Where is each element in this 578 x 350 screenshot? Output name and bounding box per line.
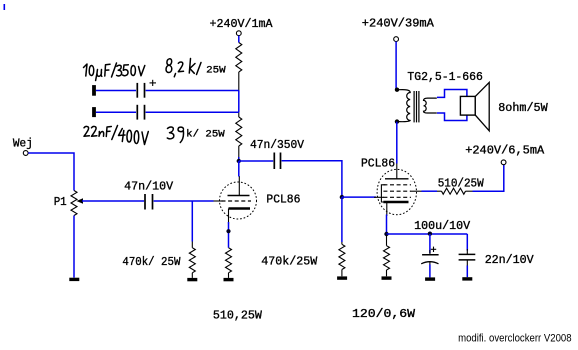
wire cap to V2 grid junction: [282, 161, 342, 197]
handwritten label 22nF/400V: [84, 126, 148, 145]
ground 470k 2: [337, 276, 347, 279]
cap 10uF polarity +: [150, 80, 157, 86]
capacitor 100u/10V electrolytic: [421, 234, 438, 265]
wire terminal to R 8.2k: [238, 36, 240, 43]
node Wej label: [13, 137, 33, 151]
wire junction to 470k: [191, 201, 193, 242]
V2 anode: [385, 178, 409, 180]
supply +240V/39mA label: [362, 17, 435, 31]
wire secondary bottom to speaker: [437, 113, 467, 121]
transformer core: [414, 91, 419, 122]
speaker cone: [475, 82, 489, 130]
terminal +240V/1mA: [236, 31, 241, 36]
junction V1 cathode: [226, 229, 230, 233]
svg-text:PCL86: PCL86: [266, 193, 300, 207]
wire node to V1 anode: [238, 161, 240, 177]
ground 22n: [462, 277, 472, 280]
resistor 8,2k/25W: [236, 43, 242, 91]
tube V2 label PCL86: [361, 157, 395, 171]
capacitor 47n/10V: [145, 194, 153, 210]
V2 anode lead: [396, 163, 398, 179]
handwritten label 10uF/350V: [84, 63, 145, 81]
V2 grid g1 (dashed): [383, 196, 411, 198]
capacitor 47n/350V label: [250, 138, 305, 152]
terminal +240V/39mA: [394, 37, 399, 42]
transformer secondary winding: [424, 98, 437, 113]
tube V1 label PCL86: [266, 193, 300, 207]
svg-text:22n/10V: 22n/10V: [485, 253, 535, 267]
wire cap 22nF to rail: [146, 111, 239, 113]
supply +240V/6,5mA label: [465, 144, 545, 158]
wire cap to grid: [154, 200, 214, 202]
wire R510 to +240V/6,5mA: [473, 165, 504, 192]
wire g2 to R510: [422, 190, 438, 192]
resistor 510,25W cathode: [226, 248, 232, 278]
wire input to P1 top: [28, 153, 74, 191]
wire junction to V2 grid: [342, 196, 376, 198]
resistor 470k/25W grid: [189, 242, 195, 278]
V2 cathode: [383, 202, 408, 216]
resistor 470k/25W label: [122, 255, 181, 269]
footer text: [458, 332, 571, 344]
svg-text:+240V/1mA: +240V/1mA: [210, 17, 274, 31]
terminal +240V/6,5mA: [501, 160, 506, 165]
wire 100u to ground: [429, 265, 431, 278]
svg-text:47n/10V: 47n/10V: [124, 179, 174, 193]
input terminal Wej: [23, 151, 28, 156]
svg-text:470k/ 25W: 470k/ 25W: [122, 255, 181, 269]
wire V2 cathode down: [386, 215, 388, 235]
wire bar to cap 10uF: [96, 90, 136, 92]
potentiometer P1: [71, 191, 77, 216]
stray mark: [3, 4, 5, 10]
capacitor 100u/10V label: [414, 219, 471, 233]
V2 g3 strap: [381, 185, 385, 202]
svg-text:k/ 25W: k/ 25W: [186, 129, 225, 141]
resistor 510/25W label: [438, 176, 485, 190]
tube V2 PCL86 pentode envelope: [377, 169, 416, 214]
svg-text:Wej: Wej: [13, 137, 33, 151]
svg-text:8ohm/5W: 8ohm/5W: [498, 101, 548, 115]
V2 g1 lead: [374, 196, 384, 198]
rail segment: [238, 91, 240, 113]
svg-text:510/25W: 510/25W: [438, 176, 485, 190]
wire R39k to node: [238, 157, 240, 161]
ground V1 cathode: [224, 278, 234, 281]
svg-text:PCL86: PCL86: [361, 157, 395, 171]
cap 10uF/350V terminal bar: [92, 85, 96, 96]
wire plate to transformer: [396, 122, 398, 164]
wire P1 to ground: [73, 216, 75, 278]
potentiometer P1 label: [54, 195, 67, 209]
transformer TG2,5-1-666 label: [407, 70, 483, 84]
wire cathode to caps: [387, 233, 468, 235]
label 25W (8,2k): [206, 65, 226, 76]
svg-text:modifi. overclockerr V2008: modifi. overclockerr V2008: [458, 332, 571, 344]
cap 100u polarity +: [431, 247, 436, 252]
svg-text:TG2,5-1-666: TG2,5-1-666: [407, 70, 483, 84]
transformer primary winding: [399, 90, 410, 122]
capacitor 10uF/350V: [137, 83, 144, 98]
svg-text:510,25W: 510,25W: [213, 308, 263, 322]
svg-text:100u/10V: 100u/10V: [414, 219, 471, 233]
svg-text:+240V/6,5mA: +240V/6,5mA: [465, 144, 545, 158]
wire bar to cap 22nF: [96, 111, 136, 113]
ground 120 ohm: [382, 276, 392, 279]
V2 grid g3 (dashed): [383, 184, 411, 186]
junction 100u: [428, 232, 432, 236]
resistor 510,25W label: [213, 308, 263, 322]
capacitor 22n/10V label: [485, 253, 535, 267]
wire 22n to ground: [466, 266, 468, 278]
junction anode node: [237, 159, 241, 163]
ground 100u: [425, 277, 435, 280]
handwritten label 39: [167, 127, 183, 143]
wire node to cap 47n/350V: [239, 160, 273, 162]
capacitor 47n/10V label: [124, 179, 174, 193]
wire V1 cathode down: [228, 222, 230, 248]
svg-text:+240V/39mA: +240V/39mA: [362, 17, 435, 31]
V2 g2 lead: [411, 190, 422, 192]
junction V2 grid: [340, 195, 344, 199]
resistor 470k/25W grid V2: [339, 242, 345, 276]
junction primary top: [395, 88, 399, 92]
wire supply to transformer: [395, 42, 397, 90]
capacitor 22n/10V: [459, 234, 476, 266]
junction primary bottom: [395, 119, 399, 123]
speaker driver box: [460, 96, 475, 115]
V1 anode: [228, 195, 250, 197]
tube V1 PCL86 triode envelope: [220, 182, 257, 219]
label k/ 25W (39k): [186, 129, 225, 141]
wire junction to 470k 2: [341, 197, 343, 242]
capacitor 47n/350V: [274, 153, 280, 170]
svg-text:P1: P1: [54, 195, 67, 209]
resistor 120/0,6W: [384, 234, 390, 276]
resistor 120/0,6W label: [352, 307, 416, 321]
resistor 510/25W: [437, 188, 473, 194]
V1 anode lead: [238, 176, 240, 196]
V2 grid g2 (dashed): [383, 190, 411, 192]
wire cap 10uF to rail: [146, 90, 239, 92]
wire secondary top to speaker: [437, 90, 467, 98]
V1 grid lead: [214, 200, 224, 202]
svg-text:470k/25W: 470k/25W: [261, 254, 318, 268]
junction V2 cathode: [384, 232, 388, 236]
supply +240V/1mA label: [210, 17, 274, 31]
resistor 470k/25W 2 label: [261, 254, 318, 268]
V1 grid (dashed): [222, 200, 252, 202]
V1 cathode: [229, 209, 251, 225]
svg-text:47n/350V: 47n/350V: [250, 138, 305, 152]
ground P1: [69, 278, 79, 281]
capacitor 22nF/400V: [137, 105, 144, 120]
svg-text:120/0,6W: 120/0,6W: [352, 307, 416, 321]
ground 470k grid: [187, 278, 197, 281]
P1 wiper arrow: [77, 198, 145, 204]
speaker label 8ohm/5W: [498, 101, 548, 115]
handwritten label 8,2k/: [166, 59, 201, 77]
svg-text:25W: 25W: [206, 65, 226, 76]
resistor 39k/25W: [236, 112, 242, 158]
cap 22nF/400V terminal bar: [92, 107, 96, 117]
